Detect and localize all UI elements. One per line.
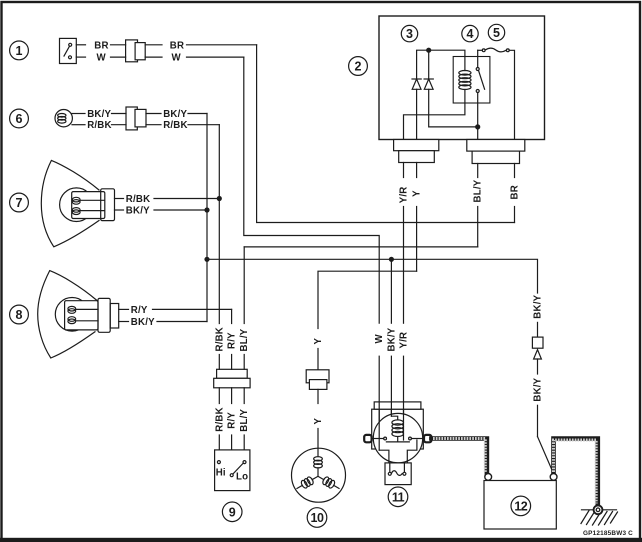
node 9 label (222, 502, 242, 522)
node 10 label (307, 508, 327, 528)
wire BL/Y route to dimmer (244, 246, 478, 248)
wire R/BK after connector J6 (146, 120, 219, 131)
wire W from switch 1 (76, 53, 125, 64)
svg-text:GP12185BW3 C: GP12185BW3 C (583, 530, 633, 537)
node 11 label (388, 487, 408, 507)
svg-text:3: 3 (406, 27, 413, 41)
relay 4 box (453, 57, 490, 104)
wire Y to magneto lower (313, 389, 324, 456)
node 2 label (349, 57, 368, 76)
wire W route to unit 11 (244, 57, 379, 323)
switch 5 symbol (478, 48, 515, 139)
svg-text:BK/Y: BK/Y (163, 109, 187, 120)
svg-text:10: 10 (311, 511, 324, 525)
svg-text:W: W (172, 53, 182, 64)
wire BR after connector J1 (145, 40, 256, 51)
wire R/BK to dimmer (214, 388, 225, 450)
wire BK/Y from lamp 6 (72, 109, 126, 120)
svg-text:R/BK: R/BK (163, 120, 187, 131)
battery cable right to ground (554, 439, 598, 505)
wire Y/R from box 2 (399, 163, 410, 324)
wire BR horizontal route (257, 45, 515, 223)
svg-text:1: 1 (16, 44, 23, 58)
connector J1 (126, 40, 146, 62)
dimmer switch 9 (215, 450, 250, 491)
svg-text:R/BK: R/BK (126, 194, 150, 205)
diode D3 (534, 350, 542, 359)
svg-text:BK/Y: BK/Y (533, 377, 544, 401)
node 8 label (10, 305, 29, 324)
svg-text:R/BK: R/BK (214, 407, 225, 431)
node 3 label (401, 25, 417, 41)
svg-text:6: 6 (16, 112, 23, 126)
wire Y to magneto (313, 338, 324, 370)
svg-text:7: 7 (16, 196, 23, 210)
wire W after connector J1 (145, 53, 244, 64)
node 7 label (10, 193, 29, 212)
svg-text:Lo: Lo (236, 472, 248, 483)
diode D2 (417, 79, 480, 140)
connector J9 (214, 369, 250, 388)
connector box on BK/Y (532, 337, 543, 348)
svg-text:BL/Y: BL/Y (239, 328, 250, 351)
wire BK/Y from headlamp 8 (119, 317, 207, 328)
svg-text:4: 4 (467, 27, 474, 41)
connector below box 2 right (467, 140, 525, 164)
svg-text:8: 8 (16, 308, 23, 322)
svg-text:Y: Y (313, 338, 324, 345)
wire BK/Y right upper (533, 294, 544, 337)
svg-text:BK/Y: BK/Y (533, 294, 544, 318)
wire BR from box 2 (510, 164, 521, 223)
svg-text:W: W (374, 334, 385, 344)
node 5 label (488, 24, 504, 40)
regulator unit 2 box (379, 16, 545, 140)
part number text (583, 530, 633, 537)
battery 12 (484, 474, 557, 530)
terminal tab right of unit 11 (424, 435, 431, 442)
svg-text:BR: BR (510, 185, 521, 199)
svg-text:BK/Y: BK/Y (131, 317, 155, 328)
svg-text:BR: BR (170, 40, 184, 51)
wire R/BK from headlamp 7 (115, 194, 220, 205)
node 12 label (511, 496, 531, 516)
wire R/Y to dimmer (227, 388, 238, 450)
svg-text:11: 11 (392, 490, 405, 504)
svg-text:BK/Y: BK/Y (126, 206, 150, 217)
node 4 label (462, 25, 478, 41)
wire R/BK vertical (214, 125, 225, 370)
svg-text:Y: Y (313, 418, 324, 425)
relay coil L1 (404, 71, 472, 140)
svg-text:BL/Y: BL/Y (473, 179, 484, 202)
relay contact (476, 50, 484, 139)
headlamp 7 (41, 160, 114, 246)
wire BK/Y after connector J6 (146, 109, 207, 120)
wire BK/Y from headlamp 7 (115, 206, 208, 217)
wire BR from switch 1 (76, 40, 125, 51)
terminal tab left of unit 11 (364, 435, 371, 442)
wire Y/R label to unit 11 (399, 332, 410, 440)
connector below box 2 left (394, 140, 439, 163)
connector J10 (306, 370, 329, 390)
svg-text:Y/R: Y/R (399, 187, 410, 204)
battery cable left (431, 439, 487, 474)
svg-text:9: 9 (229, 505, 236, 519)
connector below unit 11 (385, 463, 411, 485)
headlamp 8 (38, 271, 119, 358)
wire BK/Y horizontal bus (207, 257, 538, 323)
wire BK/Y label to unit 11 (386, 327, 397, 416)
wire W label to unit 11 (374, 334, 385, 451)
svg-text:W: W (97, 53, 107, 64)
node 1 label (10, 41, 29, 60)
svg-text:Y: Y (412, 190, 423, 197)
svg-text:BK/Y: BK/Y (87, 109, 111, 120)
svg-text:2: 2 (355, 60, 362, 74)
switch 1 (headlight switch) (60, 38, 77, 63)
diode D1 (412, 50, 429, 89)
wire BK/Y vertical bus left (205, 114, 209, 322)
wire R/Y vertical (227, 309, 238, 369)
wire Y from box 2 (412, 163, 423, 272)
svg-text:BK/Y: BK/Y (386, 327, 397, 351)
svg-text:BR: BR (94, 40, 108, 51)
svg-text:12: 12 (514, 500, 527, 514)
svg-text:Hi: Hi (216, 468, 226, 479)
svg-text:R/Y: R/Y (227, 412, 238, 429)
node 6 label (10, 109, 29, 128)
svg-text:R/BK: R/BK (214, 327, 225, 351)
svg-text:R/BK: R/BK (87, 120, 111, 131)
wire BK/Y right lower (533, 359, 554, 474)
svg-text:5: 5 (493, 26, 500, 40)
bus wire inside box 2 (417, 48, 465, 79)
wire R/BK from lamp 6 (72, 120, 126, 131)
wire BL/Y vertical left (239, 247, 250, 369)
ground symbol (581, 505, 618, 525)
wire R/Y from headlamp 8 (119, 305, 232, 316)
wire Y route (318, 271, 417, 328)
connector J6 (126, 107, 146, 130)
magneto 10 (292, 448, 346, 502)
svg-text:R/Y: R/Y (227, 332, 238, 349)
wire BL/Y to dimmer (239, 388, 250, 450)
svg-text:Y/R: Y/R (399, 332, 410, 349)
svg-text:BL/Y: BL/Y (239, 408, 250, 431)
lamp 6 (tail lamp bulb) (55, 110, 72, 127)
wire BL/Y from box 2 (473, 164, 484, 247)
svg-text:R/Y: R/Y (131, 305, 148, 316)
starter relay unit 11 (372, 402, 424, 463)
